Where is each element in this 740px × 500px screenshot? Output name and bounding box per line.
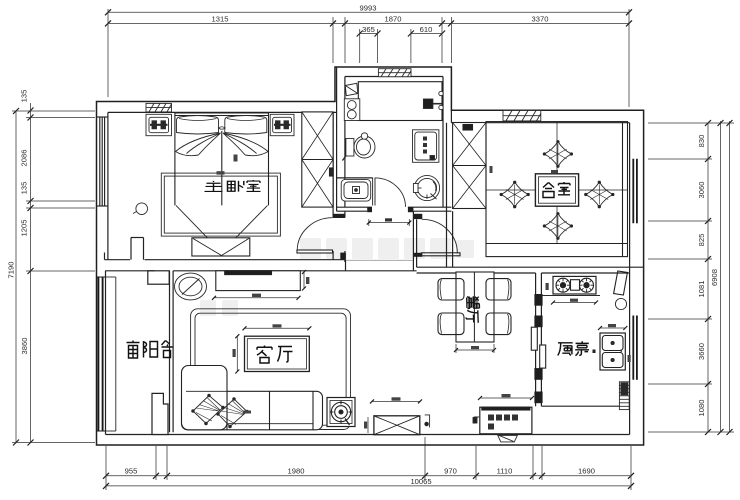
kitchen stool circle — [615, 298, 626, 309]
door jamb blocks heshi door — [414, 214, 423, 219]
tatami small dim — [490, 166, 493, 173]
dining chair TR — [486, 279, 511, 300]
bathroom vanity shelf — [345, 83, 358, 95]
toilet — [342, 133, 375, 161]
svg-text:7190: 7190 — [7, 262, 16, 279]
top extension lines — [108, 9, 629, 107]
svg-text:1980: 1980 — [288, 466, 305, 475]
coffee table rug — [245, 336, 310, 371]
bathroom door arc — [375, 178, 406, 207]
bedroom wardrobe — [302, 112, 333, 207]
bottom extension lines — [106, 437, 631, 490]
sofa dim label — [243, 411, 251, 414]
kitchen sink unit — [600, 333, 625, 370]
dining table dim bar — [454, 344, 496, 353]
dimension left inner chain 135 2086 135 1205 3860 — [20, 90, 34, 446]
svg-text:10065: 10065 — [410, 477, 431, 486]
fridge label marks — [488, 415, 518, 430]
exterior wall inner faces — [106, 67, 630, 435]
svg-text:1690: 1690 — [578, 466, 595, 475]
svg-text:1081: 1081 — [697, 281, 706, 298]
dimension top row3 365 610 — [357, 25, 445, 37]
sofa pillow 2 — [217, 398, 249, 428]
svg-text:825: 825 — [697, 234, 706, 247]
bedroom tv bench — [192, 238, 250, 256]
svg-text:135: 135 — [20, 90, 29, 103]
label kitchen — [558, 341, 596, 355]
window heshi right wall — [633, 159, 637, 224]
svg-text:6908: 6908 — [710, 269, 719, 286]
balcony top stub wall — [148, 271, 169, 284]
bedroom top wall inner — [108, 111, 337, 113]
sink dim bar — [598, 324, 631, 362]
bathroom right wall inner — [442, 77, 444, 208]
heshi cushion bottom — [543, 213, 572, 240]
heshi cushion right — [585, 181, 614, 208]
kitchen wall dark blocks — [534, 294, 542, 403]
stove dim bar — [546, 283, 599, 305]
living carpet — [191, 309, 351, 430]
shoe cabinet — [374, 416, 420, 435]
bathroom round basin — [413, 175, 439, 200]
dining chair BR — [486, 313, 511, 335]
right wall inner — [629, 123, 631, 435]
label heshi — [543, 182, 570, 198]
kitchen bottom line — [541, 405, 629, 407]
sofa chaise — [182, 366, 228, 430]
entrance jamb mark right — [473, 417, 479, 424]
dining chair BL — [438, 313, 464, 335]
balcony planter line — [106, 277, 116, 431]
heshi table — [535, 174, 578, 206]
shower head — [423, 91, 443, 109]
heshi table small dim — [551, 170, 558, 173]
wall bedroom bottom band — [105, 253, 346, 271]
label dining room rotated — [467, 296, 480, 309]
nightstand right — [270, 114, 294, 135]
svg-text:135: 135 — [20, 182, 29, 195]
svg-text:3660: 3660 — [697, 343, 706, 360]
wall bedroom right / bathroom left — [333, 112, 345, 262]
svg-text:955: 955 — [125, 466, 138, 475]
fridge step trapezoid — [498, 435, 518, 442]
label living room — [257, 346, 293, 364]
dimension right chains 830 3060 825 1081 3660 1080 / 6908 — [697, 120, 733, 435]
watermark — [200, 238, 474, 316]
window hatch heshi top wall — [503, 111, 541, 121]
label master bedroom — [205, 180, 261, 192]
svg-text:2086: 2086 — [20, 150, 29, 167]
dining chair TL — [438, 279, 464, 300]
heshi wardrobe — [453, 123, 486, 209]
bedroom door leaf — [297, 250, 333, 253]
left wall inner (balcony) — [105, 271, 107, 435]
bedroom tv bench column — [131, 238, 144, 260]
bathroom shower box — [358, 82, 442, 121]
living plant pot — [175, 273, 207, 300]
balcony living divider line — [170, 271, 174, 433]
bathroom vanity basin cabinet — [344, 99, 360, 121]
label south balcony — [127, 341, 173, 359]
side table with lamp — [327, 398, 355, 427]
window balcony left wall — [97, 277, 106, 431]
tv cabinet dim bar — [212, 270, 309, 300]
coffee table dim bars — [233, 324, 312, 373]
left extension lines — [12, 111, 95, 443]
bedroom left wall inner — [107, 112, 109, 259]
svg-text:1870: 1870 — [385, 15, 402, 24]
door jamb blocks bathroom door — [367, 207, 372, 212]
window hatch bathroom top wall — [378, 69, 411, 77]
svg-text:3060: 3060 — [697, 182, 706, 199]
fridge cabinet — [480, 407, 532, 434]
door jamb blocks bedroom door — [333, 214, 345, 218]
bathroom small sink — [341, 179, 371, 201]
bathroom bump left wall inner — [336, 67, 338, 211]
heshi top wall inner — [451, 122, 629, 124]
bed blanket fan curves — [176, 133, 269, 253]
bed pillows — [177, 116, 267, 135]
shoe cabinet dim bar — [364, 397, 422, 433]
nightstand left — [146, 114, 172, 135]
right extension lines — [648, 123, 734, 432]
wall kitchen left — [536, 273, 542, 406]
svg-text:970: 970 — [444, 466, 457, 475]
corridor dim bar — [367, 218, 412, 226]
bedroom door arc — [297, 218, 332, 250]
balcony bottom pillar — [152, 393, 168, 434]
window hatch bedroom top wall — [146, 103, 172, 112]
bedroom rug — [161, 173, 280, 236]
svg-text:1110: 1110 — [497, 466, 513, 475]
living tv cabinet — [216, 271, 300, 291]
gas stove — [553, 276, 596, 294]
svg-text:365: 365 — [362, 25, 375, 34]
stove counter line — [541, 295, 600, 297]
bathroom top wall inner — [345, 76, 443, 78]
sofa pillow 1 — [192, 394, 225, 425]
heshi cushion top — [543, 141, 572, 168]
label washing machine tiny — [423, 137, 427, 154]
dining table — [456, 272, 494, 342]
tatami platform — [486, 122, 628, 257]
dimension top row2 1315 1870 3370 — [105, 15, 632, 27]
svg-text:830: 830 — [697, 135, 706, 148]
heshi cushion left — [500, 181, 529, 208]
svg-text:1315: 1315 — [212, 15, 229, 24]
fridge dim bar — [478, 394, 534, 400]
rug top small dim — [217, 171, 225, 174]
corridor threshold lines — [346, 259, 414, 261]
bathroom inner partition — [337, 177, 373, 179]
window kitchen right wall — [633, 316, 637, 380]
window bedroom left wall — [97, 117, 108, 206]
dimension bottom total 10065 — [103, 477, 634, 489]
heshi door leaf — [422, 253, 461, 256]
washing machine — [413, 130, 439, 163]
dimension bottom row 955 1980 970 1110 1690 — [103, 466, 634, 478]
svg-text:610: 610 — [420, 25, 433, 34]
bedroom floor drain circle — [136, 203, 148, 215]
svg-text:1080: 1080 — [697, 400, 706, 417]
corridor top wall (bathroom bottom) — [337, 207, 452, 211]
bottom wall inner — [106, 434, 630, 436]
entrance jamb mark left — [425, 415, 430, 428]
bed — [175, 113, 269, 205]
dimension left outer 7190 — [7, 108, 20, 446]
bed small dim — [234, 155, 238, 162]
wall heshi-dining band — [346, 267, 644, 273]
wall heshi left — [447, 110, 453, 267]
exterior wall outer face — [97, 67, 644, 445]
dimension top row1 9993 — [105, 4, 632, 16]
svg-text:3370: 3370 — [532, 15, 549, 24]
svg-text:1205: 1205 — [20, 220, 29, 237]
kitchen corner fridge tilted — [614, 271, 628, 295]
kitchen sliding door panels — [531, 327, 545, 368]
heshi door arc — [422, 219, 457, 253]
corridor right wall — [413, 211, 416, 270]
svg-text:3860: 3860 — [20, 338, 29, 355]
water heater ladder — [619, 382, 629, 410]
svg-text:9993: 9993 — [360, 4, 377, 13]
sofa main body — [182, 391, 323, 430]
bathroom door leaf — [372, 178, 374, 206]
